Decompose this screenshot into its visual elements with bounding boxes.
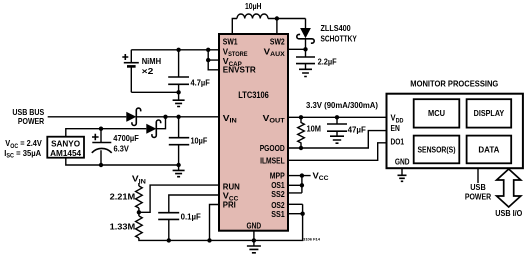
node D2 join bbox=[163, 115, 167, 119]
node SW2/L1/D3 bbox=[275, 16, 279, 20]
svg-text:USB: USB bbox=[470, 182, 486, 192]
wire ENVSTR tie bbox=[208, 60, 219, 70]
label VOC ISC bbox=[4, 138, 42, 160]
diode D1 schottky bbox=[126, 108, 140, 125]
svg-text:4700µF: 4700µF bbox=[113, 133, 139, 143]
capacitor C3 10uF bbox=[169, 117, 208, 165]
block MCU bbox=[414, 99, 460, 127]
svg-text:4.7µF: 4.7µF bbox=[191, 77, 210, 87]
node PRI gnd bbox=[207, 238, 211, 242]
ground below chip bbox=[247, 246, 261, 253]
svg-text:SS2: SS2 bbox=[271, 189, 285, 199]
inductor L1 10uH bbox=[237, 1, 268, 19]
resistor R2 1.33M bbox=[110, 216, 143, 238]
wire D1 to VIN bbox=[136, 116, 219, 118]
wire VAUX bbox=[288, 48, 306, 50]
wire VOUT to VDD bbox=[288, 116, 387, 118]
svg-text:SW1: SW1 bbox=[223, 36, 238, 46]
wire SS2 and bus bbox=[288, 176, 302, 193]
block DATA bbox=[467, 136, 512, 164]
resistor R1 2.21M bbox=[110, 186, 143, 208]
node C2 top bbox=[176, 48, 180, 52]
svg-text:LTC3106: LTC3106 bbox=[238, 89, 268, 100]
svg-text:SS1: SS1 bbox=[271, 209, 285, 219]
svg-text:3106 F14: 3106 F14 bbox=[303, 236, 321, 241]
wire USB input bbox=[48, 116, 127, 118]
svg-text:SANYO: SANYO bbox=[51, 139, 80, 149]
wire SW1 to inductor bbox=[232, 19, 237, 35]
wire R1 to R2 bbox=[138, 208, 140, 216]
wire VCAP tie bbox=[208, 50, 219, 60]
solar cell SANYO AM1454 bbox=[47, 137, 84, 158]
wire chip GND bbox=[253, 231, 255, 246]
capacitor C1 4700uF polarized bbox=[92, 129, 139, 165]
svg-text:POWER: POWER bbox=[18, 116, 44, 126]
svg-text:2.2µF: 2.2µF bbox=[318, 57, 337, 67]
svg-text:GND: GND bbox=[247, 220, 262, 230]
svg-text:×2: ×2 bbox=[142, 66, 154, 76]
diode D2 schottky bbox=[146, 120, 160, 137]
wire PRI bbox=[210, 205, 220, 241]
capacitor C5 0.1uF bbox=[158, 211, 201, 240]
wire MPP to VCC bbox=[288, 175, 311, 177]
wire solar top bbox=[66, 129, 147, 137]
svg-text:EN: EN bbox=[391, 123, 400, 133]
capacitor C2 4.7uF bbox=[168, 50, 210, 93]
label USB BUS POWER bbox=[12, 107, 44, 126]
svg-text:USB I/O: USB I/O bbox=[495, 208, 522, 218]
node C1 bottom bbox=[99, 163, 103, 167]
ground below C3 bbox=[178, 165, 180, 170]
node C3 bottom bbox=[176, 163, 180, 167]
node C3 top bbox=[176, 115, 180, 119]
svg-text:NiMH: NiMH bbox=[142, 56, 161, 66]
wire ILMSEL to DO1 bbox=[288, 143, 387, 161]
wire inductor to SW2 and diode bbox=[268, 19, 306, 35]
svg-text:DO1: DO1 bbox=[391, 137, 405, 147]
block SENSOR(S) bbox=[414, 136, 460, 164]
svg-text:10µF: 10µF bbox=[191, 135, 208, 145]
svg-text:SENSOR(S): SENSOR(S) bbox=[418, 144, 456, 154]
svg-text:3.3V (90mA/300mA): 3.3V (90mA/300mA) bbox=[306, 100, 378, 110]
diode D3 ZLLS400 schottky bbox=[297, 19, 357, 50]
svg-text:MCU: MCU bbox=[428, 108, 445, 118]
block DISPLAY bbox=[467, 99, 512, 127]
svg-text:10µH: 10µH bbox=[245, 1, 262, 11]
svg-text:SCHOTTKY: SCHOTTKY bbox=[321, 34, 358, 44]
svg-text:ILMSEL: ILMSEL bbox=[260, 155, 285, 165]
ground below C6 bbox=[330, 136, 344, 143]
monitor box bbox=[387, 78, 523, 168]
svg-text:MONITOR PROCESSING: MONITOR PROCESSING bbox=[410, 78, 498, 88]
svg-text:DISPLAY: DISPLAY bbox=[474, 108, 505, 118]
node VAUX/D3/C4 bbox=[303, 47, 307, 51]
svg-text:GND: GND bbox=[395, 157, 410, 167]
wire D2 to VIN node bbox=[156, 117, 165, 129]
svg-text:PRI: PRI bbox=[223, 200, 236, 210]
battery B1 NiMH x2 bbox=[122, 50, 161, 93]
wire battery top rail to VSTORE bbox=[131, 49, 219, 51]
svg-text:2.21M: 2.21M bbox=[110, 192, 136, 202]
svg-text:6.3V: 6.3V bbox=[114, 144, 130, 154]
wire monitor GND stub bbox=[401, 168, 403, 175]
svg-text:47µF: 47µF bbox=[348, 125, 366, 135]
wire OS1 bbox=[288, 184, 302, 186]
wire SS1 bbox=[288, 213, 303, 215]
svg-text:ENVSTR: ENVSTR bbox=[223, 65, 256, 75]
ground below C4 bbox=[299, 69, 312, 76]
svg-text:POWER: POWER bbox=[465, 192, 491, 202]
svg-text:MPP: MPP bbox=[270, 170, 285, 180]
node C2 bottom bbox=[176, 90, 180, 94]
node OS1 bbox=[300, 183, 304, 187]
svg-text:ZLLS400: ZLLS400 bbox=[321, 23, 351, 33]
IC U1 LTC3106 bbox=[219, 34, 288, 231]
wire RUN bbox=[139, 185, 219, 212]
wire USB POWER stub bbox=[477, 168, 479, 183]
node VSTORE bus bbox=[206, 48, 210, 52]
node C5 gnd bbox=[167, 238, 171, 242]
svg-text:10M: 10M bbox=[307, 124, 322, 134]
USB I/O arrow bbox=[497, 169, 521, 207]
node R3 bottom bbox=[299, 146, 303, 150]
ground below C2 bbox=[178, 92, 180, 100]
svg-text:1.33M: 1.33M bbox=[110, 222, 136, 232]
wire PGOOD to EN bbox=[288, 131, 387, 148]
wire battery bottom bbox=[131, 91, 178, 93]
svg-text:0.1µF: 0.1µF bbox=[181, 211, 201, 221]
node VCAP bus bbox=[206, 58, 210, 62]
node MPP bbox=[300, 173, 304, 177]
resistor R3 10M bbox=[298, 117, 321, 148]
node chip GND bbox=[252, 238, 256, 242]
wire R2 to ground rail bbox=[139, 204, 303, 240]
svg-text:PGOOD: PGOOD bbox=[260, 143, 285, 153]
node divider tap bbox=[137, 210, 141, 214]
capacitor C4 2.2uF bbox=[296, 49, 337, 69]
ground below monitor bbox=[398, 175, 407, 181]
node R3 top bbox=[299, 115, 303, 119]
node C6 top bbox=[335, 115, 339, 119]
node C1 top bbox=[99, 127, 103, 131]
capacitor C6 47uF bbox=[327, 117, 366, 136]
wire OS2 bbox=[288, 203, 303, 205]
wire solar bottom rail bbox=[66, 158, 179, 165]
wire VIN terminal stub bbox=[138, 183, 140, 186]
node SS1 bbox=[300, 212, 304, 216]
svg-text:AM1454: AM1454 bbox=[50, 148, 81, 158]
wire VCC-pin bbox=[169, 195, 219, 213]
label USB POWER bbox=[465, 182, 491, 202]
svg-text:DATA: DATA bbox=[478, 144, 499, 154]
svg-text:SW2: SW2 bbox=[270, 36, 285, 46]
